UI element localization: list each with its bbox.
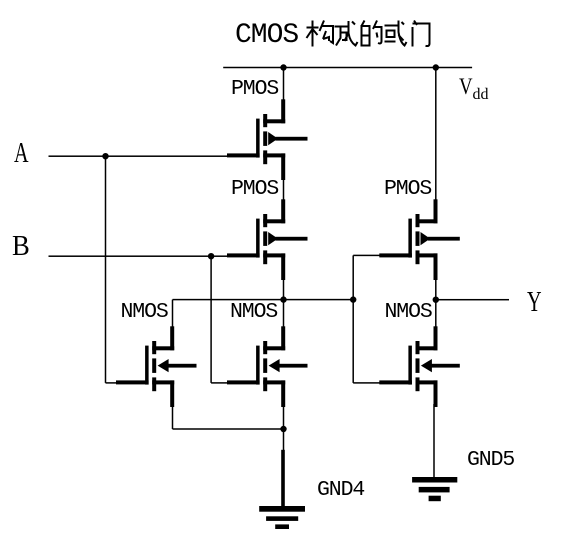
node: B branch junction (dot): [208, 253, 214, 259]
transistor Q3 (PMOS): [379, 199, 460, 280]
wire: Q2 source down to NOR output node: [283, 280, 285, 300]
wire: Q3 source down to output node: [435, 280, 437, 300]
wire: Q4 drain up to NOR rail: [172, 300, 174, 327]
node: inverter output node (dot): [433, 297, 439, 303]
transistor Q4 (NMOS): [116, 326, 197, 407]
title hanzi 成: [335, 21, 358, 46]
wire: Q5 source down to junction: [283, 407, 285, 430]
wire: input A: [49, 155, 228, 157]
wire: inverter input to Q3 gate: [353, 255, 379, 257]
label Vdd: dd subscript: [473, 87, 489, 103]
wire: output node down to Q6 drain: [435, 300, 437, 327]
wire: Q6 source down to GND5: [433, 404, 435, 477]
label output Y: [527, 289, 542, 317]
title hanzi 或: [385, 21, 407, 46]
label input B: [12, 233, 30, 261]
wire: rail down to Q3 drain: [435, 68, 437, 200]
wire: input B: [49, 255, 228, 257]
title hanzi 门: [413, 21, 430, 47]
transistor Q5 (NMOS): [227, 326, 308, 407]
wire: Q4 source down and right: [172, 407, 174, 430]
label GND4: [317, 480, 364, 502]
wire: output to Y: [436, 299, 509, 301]
label PMOS (Q3): [384, 179, 431, 201]
node: rail to PMOS chain (dot): [280, 64, 286, 70]
label NMOS (Q6): [385, 302, 432, 324]
label NMOS (Q4): [121, 302, 168, 324]
transistor Q1 (PMOS): [227, 99, 308, 180]
label NMOS (Q5): [230, 302, 277, 324]
wire: NOR node down to Q5 drain: [283, 300, 285, 327]
wire: Q1 source to Q2 drain: [283, 180, 285, 200]
label Vdd: V: [459, 76, 473, 100]
node: NMOS sources junction (dot): [280, 426, 286, 432]
title text CMOS: [235, 22, 298, 50]
wire: B branch down to Q5 gate: [210, 256, 212, 383]
title hanzi 构: [307, 21, 334, 47]
wire: junction down to GND4: [283, 429, 285, 451]
ground GND5 symbol: [412, 477, 457, 501]
wire: rail down to Q1 drain: [283, 68, 285, 100]
title hanzi 的: [362, 21, 382, 46]
label GND5: [467, 450, 514, 472]
label input A: [14, 140, 29, 168]
transistor Q6 (NMOS): [379, 326, 460, 407]
node: rail to inverter branch (dot): [433, 64, 439, 70]
transistor Q2 (PMOS): [227, 199, 308, 280]
wire: inverter input riser: [352, 255, 354, 383]
node: NOR output to inverter input (dot): [350, 296, 356, 302]
wire: inverter input to Q6 gate: [353, 382, 379, 384]
wire: Vdd top rail: [223, 67, 472, 69]
label PMOS (Q1): [231, 79, 278, 101]
ground GND4 symbol: [259, 450, 305, 529]
label PMOS (Q2): [231, 179, 278, 201]
wire: A branch down to Q4 gate: [105, 156, 107, 383]
wire: NOR output rail: [173, 299, 354, 301]
node: A branch junction (dot): [102, 153, 108, 159]
node: NOR output at PMOS chain bottom (dot): [280, 296, 286, 302]
